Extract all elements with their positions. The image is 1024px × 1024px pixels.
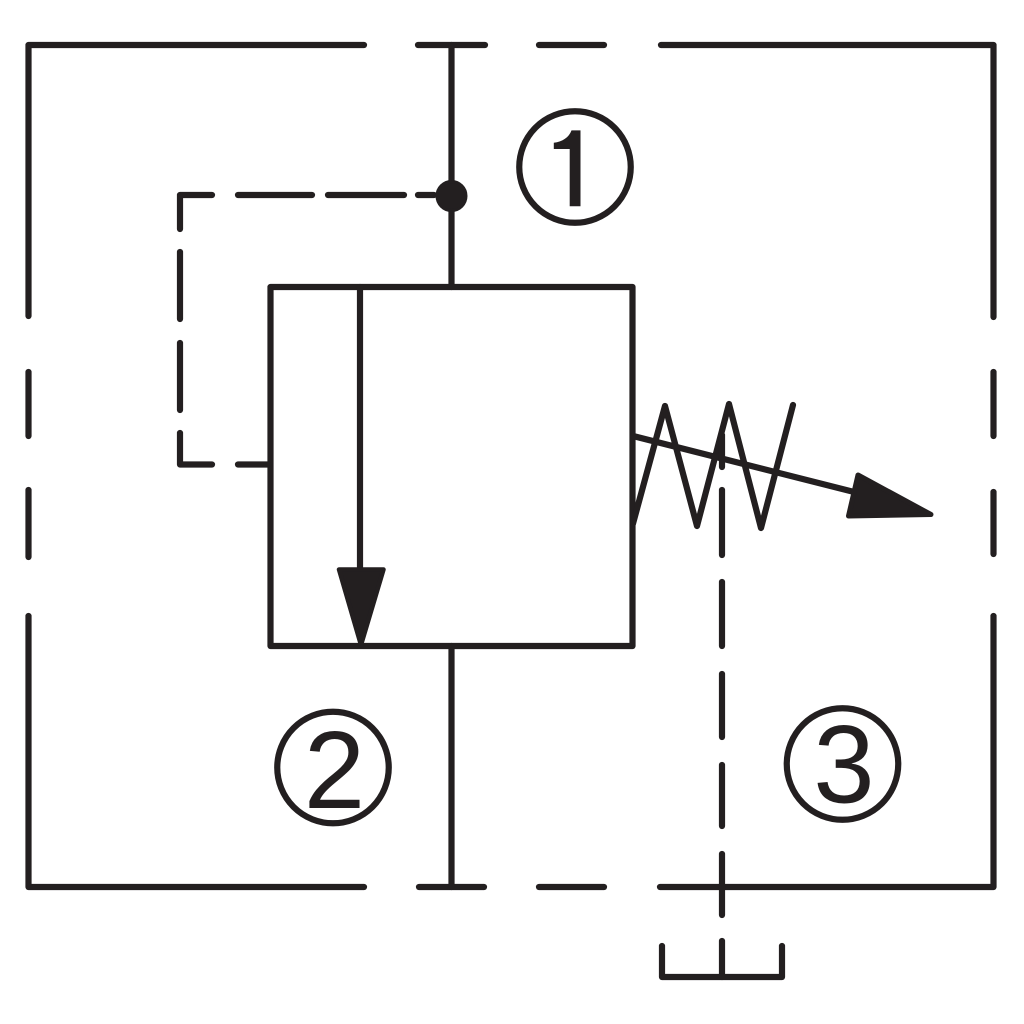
drain dashed line d7 tank center — [719, 941, 725, 977]
pilot line dash h2 — [328, 192, 404, 198]
pilot line dash h1 — [238, 192, 312, 198]
enclosure bottom-left corner — [29, 616, 365, 887]
wire port 1 line — [448, 45, 454, 287]
port 1 label — [554, 130, 581, 206]
port 2 circle — [277, 712, 389, 824]
enclosure top-left corner — [29, 45, 365, 316]
port 3 circle — [787, 708, 899, 820]
enclosure top dash A — [418, 42, 485, 48]
drain dashed line d2 — [719, 490, 725, 555]
drain dashed line d4 — [719, 674, 725, 737]
svg-text:3: 3 — [813, 704, 874, 827]
drain dashed line d1 — [719, 435, 725, 467]
junction node dot — [437, 182, 466, 211]
pilot line dash h3 — [418, 192, 434, 198]
enclosure left dash B — [25, 490, 31, 557]
svg-text:2: 2 — [304, 709, 365, 832]
enclosure bottom dash A — [419, 884, 484, 890]
pilot line dash v1 — [177, 252, 183, 319]
adjustment arrowhead — [849, 475, 932, 516]
enclosure left dash A — [25, 372, 31, 436]
enclosure right dash B — [990, 492, 996, 554]
drain dashed line d6 — [719, 854, 725, 915]
enclosure top-right corner — [661, 45, 994, 317]
enclosure bottom dash B — [539, 884, 604, 890]
drain dashed line d3 — [719, 582, 725, 646]
enclosure bottom-right corner — [660, 616, 994, 887]
drain dashed line d5 — [719, 765, 725, 826]
pilot line corner top-left — [180, 195, 212, 229]
flow path line — [357, 287, 363, 570]
spring — [633, 404, 793, 528]
tank symbol — [662, 946, 782, 977]
enclosure right dash A — [990, 372, 996, 436]
pilot line dash v2 — [177, 343, 183, 410]
pilot line corner bottom — [180, 433, 212, 465]
flow arrowhead — [339, 570, 384, 646]
enclosure top dash B — [539, 42, 604, 48]
adjustment arrow shaft — [633, 436, 866, 495]
valve body box — [271, 287, 633, 646]
wire port 2 line — [448, 646, 454, 887]
pilot line dash h4 — [238, 461, 268, 467]
port 1 circle — [519, 111, 631, 223]
